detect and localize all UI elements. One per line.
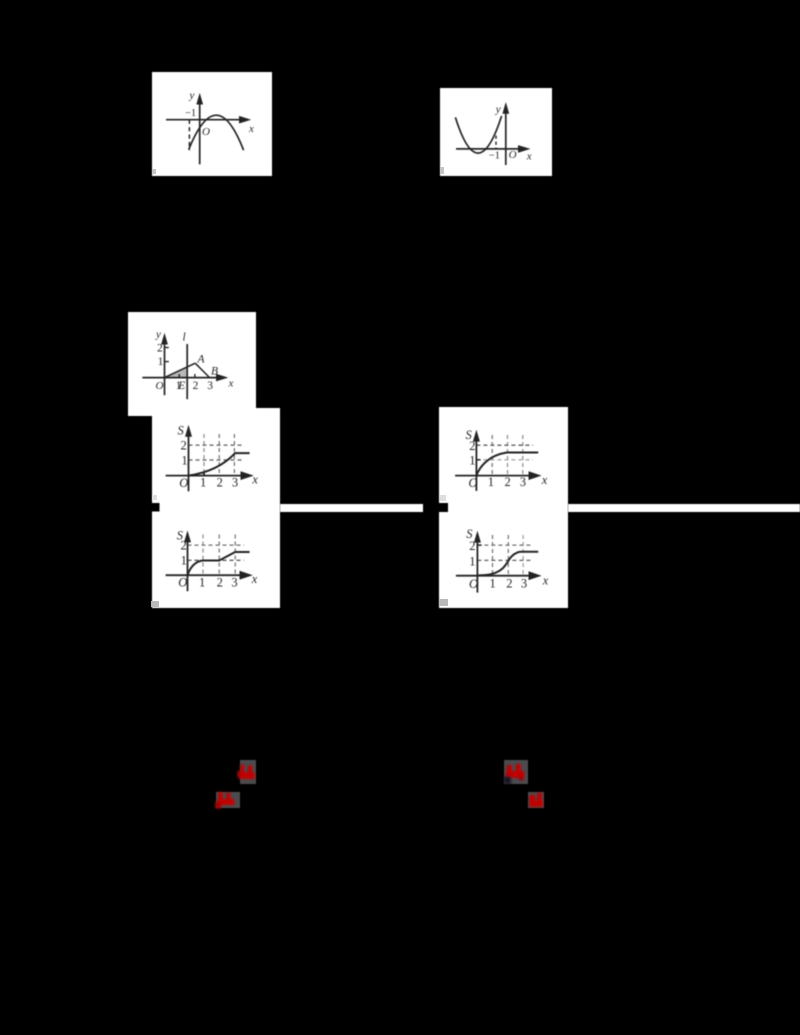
y tick 1: [165, 361, 169, 363]
svg-text:−1: −1: [185, 108, 196, 119]
figure box 3: triangle with line l: [128, 312, 256, 416]
svg-text:2: 2: [505, 475, 511, 489]
svg-text:2: 2: [181, 438, 187, 452]
svg-text:3: 3: [207, 380, 213, 392]
graph C gridline x=3: [234, 535, 236, 576]
graph D x-axis: [456, 575, 530, 577]
y-axis: [199, 101, 201, 164]
graph B gridline y=1: [476, 459, 533, 461]
red mark M4: [524, 788, 548, 812]
svg-text:1: 1: [181, 554, 187, 568]
svg-text:O: O: [178, 576, 187, 590]
x-axis: [166, 119, 240, 121]
svg-text:B: B: [211, 366, 218, 378]
graph C curve: [188, 552, 250, 575]
red mark M1: [236, 756, 260, 788]
svg-text:2: 2: [469, 439, 475, 453]
segment OA: [165, 363, 196, 377]
segment AB: [195, 363, 209, 377]
figure box 1: downward parabola: [152, 72, 272, 176]
svg-text:3: 3: [231, 575, 237, 589]
svg-text:1: 1: [199, 575, 205, 589]
dashed tick at x=-1: [495, 136, 497, 149]
svg-text:1: 1: [181, 453, 187, 467]
x-axis: [456, 148, 519, 150]
graph A curve: [189, 453, 250, 476]
x tick 1: [178, 374, 180, 378]
left tall box: graphs A (top) and C (bottom): [152, 408, 280, 608]
figure box 2: upward parabola: [440, 88, 552, 176]
graph B gridline x=2: [507, 435, 509, 476]
graph B gridline x=1: [491, 435, 493, 476]
svg-text:−1: −1: [489, 150, 500, 161]
svg-text:1: 1: [488, 475, 494, 489]
svg-text:1: 1: [490, 576, 496, 590]
svg-text:A: A: [197, 354, 206, 366]
graph D S-axis: [476, 539, 478, 593]
graph C gridline x=1: [202, 535, 204, 576]
svg-text:2: 2: [217, 575, 223, 589]
svg-text:O: O: [156, 380, 164, 392]
speck box1 corner: [152, 169, 156, 174]
speck boxL lower: [151, 601, 159, 607]
svg-text:1: 1: [158, 356, 164, 368]
speck boxL upper: [152, 495, 157, 500]
graph B gridline y=2: [476, 444, 533, 446]
svg-text:y: y: [189, 90, 195, 102]
graph D curve: [479, 552, 539, 576]
graph B gridline x=3: [522, 435, 524, 476]
svg-text:x: x: [248, 123, 254, 135]
svg-text:x: x: [542, 574, 549, 588]
parabola curve: [455, 116, 501, 153]
svg-text:x: x: [251, 473, 258, 487]
svg-text:2: 2: [157, 343, 163, 355]
svg-text:O: O: [509, 149, 517, 161]
svg-text:O: O: [469, 577, 478, 591]
x tick 2: [194, 374, 196, 378]
graph B S tick 1: [476, 459, 480, 461]
graph B x-axis: [455, 475, 529, 477]
black notch on left edge: [152, 503, 160, 512]
svg-text:2: 2: [217, 476, 223, 490]
graph A gridline x=1: [203, 434, 205, 476]
x-axis: [142, 377, 217, 379]
y-axis: [164, 341, 166, 395]
graph A S-axis: [188, 434, 190, 492]
svg-text:S: S: [178, 424, 185, 438]
white strip right segment: [568, 504, 800, 512]
graph A gridline y=1: [189, 459, 245, 461]
graph D gridline x=3: [522, 535, 524, 576]
svg-text:2: 2: [469, 539, 475, 553]
svg-text:3: 3: [521, 576, 527, 590]
graph B curve: [476, 453, 538, 476]
right tall box: graphs B (top) and D (bottom): [439, 407, 568, 608]
svg-text:2: 2: [181, 539, 187, 553]
svg-text:y: y: [155, 329, 161, 341]
speck box2 corner: [440, 167, 444, 174]
svg-text:1: 1: [469, 453, 475, 467]
graph A tick x=1: [203, 472, 205, 476]
y-axis: [505, 110, 507, 165]
shaded region: [165, 367, 188, 378]
svg-text:x: x: [251, 572, 258, 586]
white strip left segment: [280, 504, 423, 512]
svg-text:1: 1: [469, 554, 475, 568]
svg-text:x: x: [526, 151, 532, 163]
graph A x-axis: [166, 475, 242, 477]
svg-text:3: 3: [520, 475, 526, 489]
graph A gridline x=2: [218, 434, 220, 476]
line l: [186, 344, 188, 399]
svg-text:2: 2: [506, 576, 512, 590]
red mark M2: [212, 788, 244, 812]
y tick 2: [165, 347, 169, 349]
svg-text:O: O: [469, 476, 478, 490]
red mark M3: [500, 756, 532, 788]
graph D gridline x=2: [507, 535, 509, 576]
svg-text:O: O: [202, 126, 210, 138]
graph D S tick 2: [477, 544, 481, 546]
svg-text:l: l: [183, 332, 186, 344]
graph C gridline y=2: [188, 544, 245, 546]
graph C S-axis: [187, 539, 189, 591]
speck boxR upper: [440, 495, 446, 501]
graph A gridline x=3: [233, 434, 235, 476]
parabola curve: [189, 115, 244, 150]
svg-text:x: x: [228, 378, 234, 390]
graph D gridline x=1: [492, 535, 494, 576]
svg-text:O: O: [179, 476, 188, 490]
svg-text:y: y: [495, 103, 501, 115]
svg-text:2: 2: [193, 380, 199, 392]
svg-text:x: x: [541, 473, 548, 487]
graph C gridline y=1: [188, 559, 245, 561]
svg-text:1: 1: [200, 476, 206, 490]
graph C x-axis: [166, 574, 241, 576]
graph D gridline y=2: [477, 544, 533, 546]
graph D gridline y=1: [477, 559, 533, 561]
graph C gridline x=2: [218, 535, 220, 576]
dashed line at x=-1: [188, 120, 190, 151]
graph A gridline y=2: [189, 444, 245, 446]
speck boxR lower: [439, 599, 448, 606]
svg-text:3: 3: [232, 476, 238, 490]
black notch on left edge: [439, 503, 448, 512]
graph B S-axis: [475, 438, 477, 491]
svg-text:E: E: [177, 380, 185, 392]
